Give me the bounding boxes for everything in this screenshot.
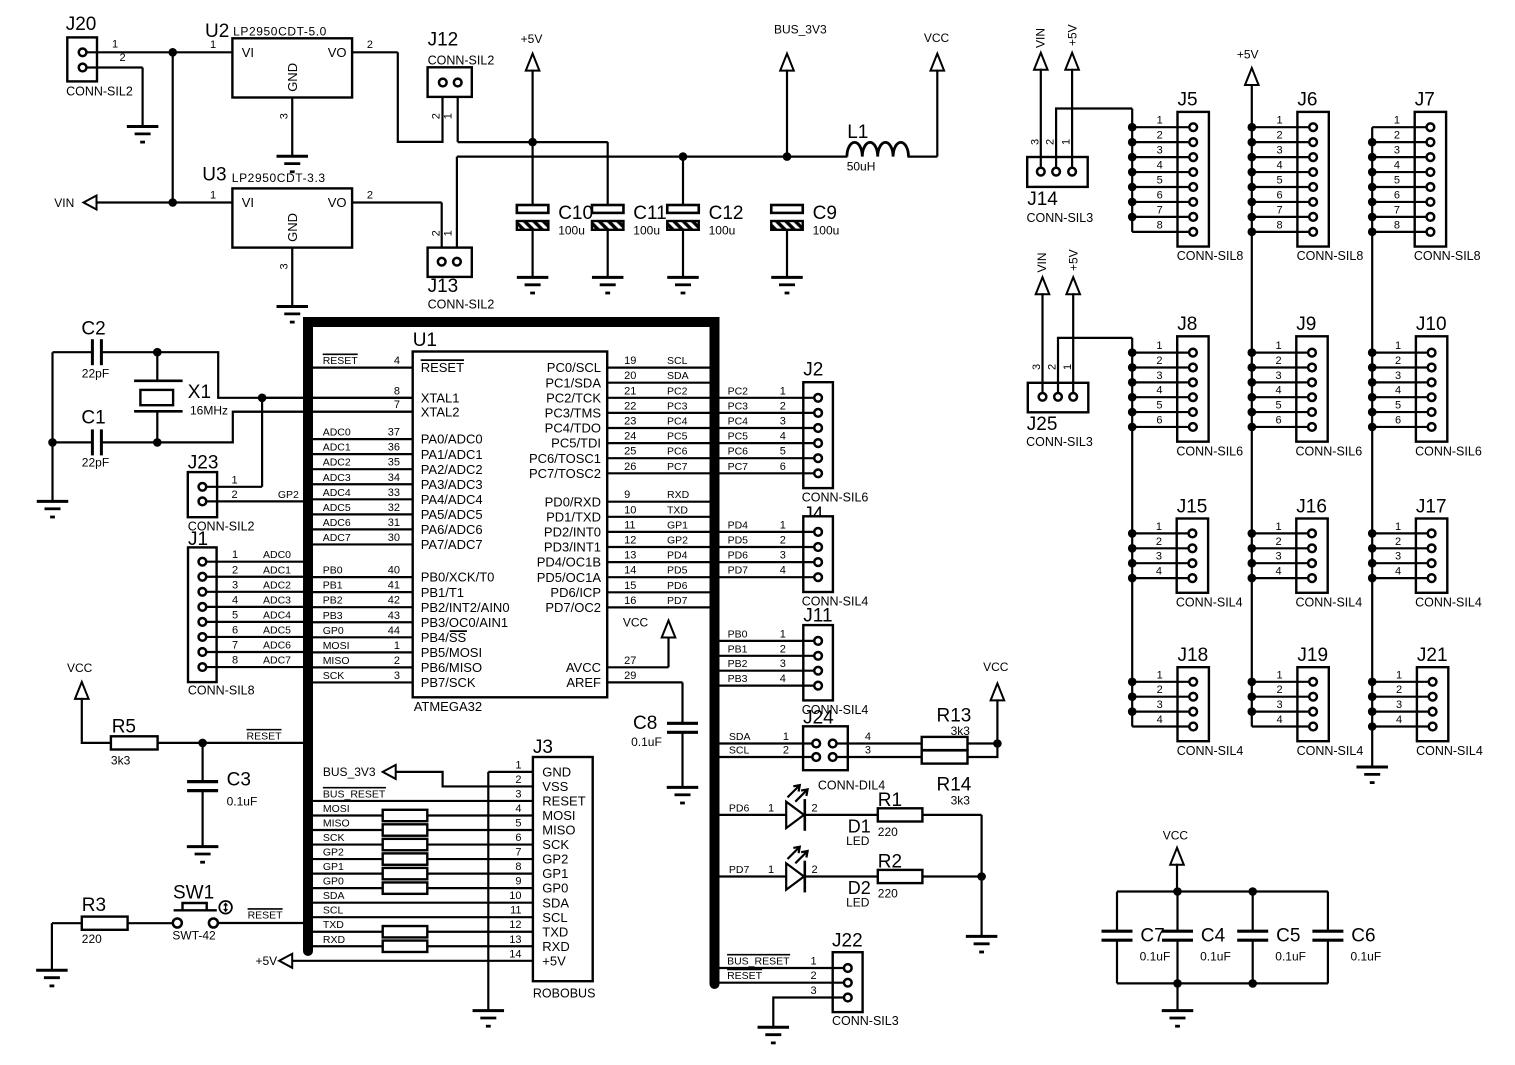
- svg-text:23: 23: [624, 416, 636, 428]
- svg-text:LED: LED: [846, 834, 870, 848]
- svg-text:PB1/T1: PB1/T1: [421, 585, 464, 600]
- svg-text:PD4: PD4: [728, 519, 749, 531]
- svg-text:GP1: GP1: [667, 519, 688, 531]
- svg-text:SCL: SCL: [542, 910, 567, 925]
- svg-text:8: 8: [515, 861, 521, 873]
- svg-text:3: 3: [780, 550, 786, 562]
- svg-text:44: 44: [388, 625, 400, 637]
- svg-text:J20: J20: [66, 14, 97, 35]
- svg-text:6: 6: [1395, 414, 1401, 426]
- svg-text:3: 3: [1156, 551, 1162, 563]
- svg-text:16MHz: 16MHz: [190, 404, 228, 418]
- svg-text:16: 16: [624, 595, 636, 607]
- svg-text:PD6/ICP: PD6/ICP: [550, 585, 601, 600]
- svg-text:6: 6: [232, 624, 238, 636]
- svg-text:1: 1: [210, 39, 216, 51]
- svg-text:10: 10: [624, 504, 636, 516]
- svg-text:12: 12: [624, 535, 636, 547]
- svg-text:36: 36: [388, 442, 400, 454]
- svg-text:C4: C4: [1201, 926, 1226, 947]
- svg-text:SWT-42: SWT-42: [172, 929, 216, 943]
- svg-text:VCC: VCC: [983, 660, 1009, 674]
- svg-text:ADC2: ADC2: [323, 457, 351, 469]
- svg-text:VSS: VSS: [542, 779, 568, 794]
- svg-text:2: 2: [232, 564, 238, 576]
- svg-text:2: 2: [1157, 684, 1163, 696]
- svg-text:3: 3: [865, 745, 871, 757]
- svg-text:3: 3: [1277, 699, 1283, 711]
- svg-text:1: 1: [780, 628, 786, 640]
- svg-text:VCC: VCC: [924, 31, 950, 45]
- svg-text:C1: C1: [81, 408, 105, 429]
- svg-text:3: 3: [811, 985, 817, 997]
- svg-text:41: 41: [388, 580, 400, 592]
- svg-text:PB5/MOSI: PB5/MOSI: [421, 645, 482, 660]
- svg-text:4: 4: [780, 673, 786, 685]
- svg-text:1: 1: [768, 802, 774, 814]
- svg-text:J15: J15: [1177, 496, 1208, 517]
- svg-text:21: 21: [624, 385, 636, 397]
- svg-text:ADC0: ADC0: [263, 549, 291, 561]
- svg-text:+5V: +5V: [542, 953, 566, 968]
- svg-text:C12: C12: [709, 203, 744, 224]
- svg-text:6: 6: [1157, 189, 1163, 201]
- svg-text:12: 12: [509, 919, 521, 931]
- svg-text:RXD: RXD: [542, 939, 569, 954]
- svg-text:J6: J6: [1297, 90, 1317, 111]
- svg-text:1: 1: [112, 39, 118, 51]
- svg-text:C6: C6: [1351, 926, 1375, 947]
- svg-text:ADC0: ADC0: [323, 427, 351, 439]
- svg-text:32: 32: [388, 502, 400, 514]
- svg-text:6: 6: [1275, 414, 1281, 426]
- svg-text:C10: C10: [558, 203, 593, 224]
- svg-text:11: 11: [510, 905, 521, 917]
- svg-text:VCC: VCC: [1163, 828, 1189, 842]
- svg-text:3: 3: [1395, 551, 1401, 563]
- svg-text:ADC3: ADC3: [323, 472, 351, 484]
- svg-text:ADC1: ADC1: [323, 442, 351, 454]
- svg-text:3: 3: [394, 670, 400, 682]
- svg-text:RESET: RESET: [247, 730, 283, 742]
- svg-text:ADC4: ADC4: [263, 609, 291, 621]
- svg-text:2: 2: [811, 802, 817, 814]
- svg-text:6: 6: [1156, 414, 1162, 426]
- svg-text:PA5/ADC5: PA5/ADC5: [421, 507, 483, 522]
- svg-text:SCK: SCK: [323, 670, 345, 682]
- svg-text:1: 1: [1277, 669, 1283, 681]
- svg-text:ADC7: ADC7: [263, 655, 291, 667]
- svg-text:1: 1: [1275, 340, 1281, 352]
- svg-text:10: 10: [509, 890, 521, 902]
- svg-text:3: 3: [1396, 699, 1402, 711]
- svg-text:1: 1: [1396, 669, 1402, 681]
- svg-text:SCL: SCL: [729, 745, 750, 757]
- svg-text:C3: C3: [227, 770, 251, 791]
- svg-text:RESET: RESET: [421, 360, 464, 375]
- svg-text:CONN-SIL6: CONN-SIL6: [1415, 444, 1482, 458]
- svg-text:2: 2: [515, 774, 521, 786]
- svg-text:PA7/ADC7: PA7/ADC7: [421, 537, 483, 552]
- svg-text:+5V: +5V: [256, 954, 278, 968]
- svg-text:CONN-SIL2: CONN-SIL2: [66, 84, 133, 98]
- svg-text:GP2: GP2: [542, 852, 568, 867]
- svg-text:37: 37: [388, 427, 400, 439]
- svg-text:GP0: GP0: [323, 876, 344, 888]
- svg-text:100u: 100u: [633, 224, 660, 238]
- svg-text:J25: J25: [1027, 414, 1058, 435]
- svg-text:7: 7: [1394, 204, 1400, 216]
- svg-text:SCK: SCK: [542, 837, 569, 852]
- svg-text:AREF: AREF: [566, 675, 601, 690]
- svg-text:22: 22: [624, 400, 636, 412]
- svg-text:CONN-SIL3: CONN-SIL3: [832, 1014, 899, 1028]
- svg-text:R2: R2: [878, 852, 902, 873]
- svg-text:3: 3: [1275, 370, 1281, 382]
- svg-text:J19: J19: [1297, 645, 1328, 666]
- svg-text:6: 6: [1277, 189, 1283, 201]
- svg-text:CONN-SIL8: CONN-SIL8: [1297, 249, 1364, 263]
- svg-text:2: 2: [780, 643, 786, 655]
- svg-text:PC0/SCL: PC0/SCL: [547, 360, 601, 375]
- svg-text:1: 1: [1062, 364, 1074, 370]
- svg-text:PD5: PD5: [728, 535, 749, 547]
- svg-text:PC4: PC4: [667, 416, 688, 428]
- svg-text:ADC7: ADC7: [323, 532, 351, 544]
- svg-text:PD6: PD6: [667, 580, 688, 592]
- svg-text:MOSI: MOSI: [542, 808, 575, 823]
- svg-text:VCC: VCC: [623, 616, 649, 630]
- svg-text:8: 8: [1394, 219, 1400, 231]
- svg-text:2: 2: [1156, 355, 1162, 367]
- svg-text:6: 6: [1394, 189, 1400, 201]
- svg-text:43: 43: [388, 610, 400, 622]
- svg-text:19: 19: [624, 355, 636, 367]
- svg-text:CONN-SIL8: CONN-SIL8: [188, 684, 255, 698]
- svg-text:ADC5: ADC5: [263, 624, 291, 636]
- svg-text:1: 1: [515, 759, 521, 771]
- svg-text:9: 9: [624, 489, 630, 501]
- svg-text:4: 4: [1157, 714, 1163, 726]
- svg-text:CONN-SIL6: CONN-SIL6: [1296, 444, 1363, 458]
- svg-text:GND: GND: [285, 63, 300, 92]
- svg-text:PD1/TXD: PD1/TXD: [546, 509, 601, 524]
- svg-text:100u: 100u: [813, 224, 840, 238]
- svg-text:J13: J13: [428, 276, 459, 297]
- svg-text:LP2950CDT-5.0: LP2950CDT-5.0: [233, 24, 327, 38]
- svg-text:CONN-SIL6: CONN-SIL6: [1176, 444, 1243, 458]
- svg-text:PB0: PB0: [728, 628, 748, 640]
- svg-text:22pF: 22pF: [82, 456, 109, 470]
- svg-text:PD7: PD7: [667, 595, 688, 607]
- svg-text:6: 6: [515, 832, 521, 844]
- svg-text:AVCC: AVCC: [566, 660, 601, 675]
- svg-text:VO: VO: [328, 195, 347, 210]
- svg-text:PD2/INT0: PD2/INT0: [544, 525, 601, 540]
- svg-text:CONN-SIL4: CONN-SIL4: [1415, 595, 1482, 609]
- svg-text:5: 5: [232, 609, 238, 621]
- svg-text:RESET: RESET: [542, 794, 585, 809]
- svg-text:1: 1: [1061, 139, 1073, 145]
- svg-text:C2: C2: [81, 319, 105, 340]
- svg-text:PA1/ADC1: PA1/ADC1: [421, 447, 483, 462]
- svg-text:3: 3: [278, 113, 290, 119]
- svg-text:4: 4: [1395, 385, 1401, 397]
- svg-text:PC5: PC5: [728, 431, 749, 443]
- svg-text:CONN-SIL8: CONN-SIL8: [1177, 249, 1244, 263]
- svg-text:SCL: SCL: [667, 355, 688, 367]
- svg-text:5: 5: [1157, 175, 1163, 187]
- svg-text:SCL: SCL: [323, 905, 344, 917]
- svg-text:ADC1: ADC1: [263, 564, 291, 576]
- svg-text:3k3: 3k3: [111, 753, 131, 767]
- svg-text:VIN: VIN: [54, 196, 74, 210]
- svg-text:2: 2: [780, 535, 786, 547]
- svg-text:13: 13: [509, 934, 521, 946]
- svg-text:CONN-SIL3: CONN-SIL3: [1026, 435, 1093, 449]
- svg-text:C11: C11: [633, 203, 666, 224]
- svg-text:42: 42: [388, 595, 400, 607]
- svg-text:PD6: PD6: [729, 802, 750, 814]
- svg-text:1: 1: [780, 385, 786, 397]
- svg-text:PB3/OC0/AIN1: PB3/OC0/AIN1: [421, 615, 508, 630]
- svg-text:PC7: PC7: [728, 461, 749, 473]
- svg-text:3: 3: [1275, 551, 1281, 563]
- svg-text:0.1uF: 0.1uF: [227, 795, 258, 809]
- svg-text:GP2: GP2: [667, 535, 688, 547]
- svg-text:9: 9: [515, 876, 521, 888]
- svg-text:2: 2: [1275, 355, 1281, 367]
- svg-text:PA2/ADC2: PA2/ADC2: [421, 462, 483, 477]
- svg-text:1: 1: [1395, 340, 1401, 352]
- svg-text:4: 4: [1395, 566, 1401, 578]
- svg-text:1: 1: [780, 519, 786, 531]
- svg-text:PB6/MISO: PB6/MISO: [421, 660, 482, 675]
- svg-text:11: 11: [624, 519, 635, 531]
- svg-text:34: 34: [388, 472, 400, 484]
- svg-text:U2: U2: [205, 21, 229, 42]
- svg-text:MISO: MISO: [323, 655, 350, 667]
- svg-text:+5V: +5V: [1237, 48, 1259, 62]
- svg-text:26: 26: [624, 461, 636, 473]
- svg-text:PD4: PD4: [667, 550, 688, 562]
- svg-text:2: 2: [1394, 130, 1400, 142]
- svg-text:R5: R5: [112, 717, 136, 738]
- svg-text:2: 2: [780, 400, 786, 412]
- svg-text:PB2: PB2: [323, 595, 343, 607]
- svg-text:2: 2: [1157, 130, 1163, 142]
- svg-text:J3: J3: [533, 737, 553, 758]
- svg-text:PB4/SS: PB4/SS: [421, 630, 467, 645]
- svg-text:J5: J5: [1178, 90, 1198, 111]
- svg-text:4: 4: [865, 731, 871, 743]
- svg-text:2: 2: [1275, 536, 1281, 548]
- svg-text:VI: VI: [242, 45, 254, 60]
- svg-text:GP2: GP2: [323, 847, 344, 859]
- svg-text:ADC5: ADC5: [323, 502, 351, 514]
- svg-text:22pF: 22pF: [82, 367, 109, 381]
- svg-text:PC5/TDI: PC5/TDI: [551, 436, 601, 451]
- svg-text:1: 1: [1156, 521, 1162, 533]
- svg-text:PD4/OC1B: PD4/OC1B: [537, 555, 601, 570]
- svg-text:3: 3: [1157, 699, 1163, 711]
- svg-text:25: 25: [624, 446, 636, 458]
- svg-text:PC4/TDO: PC4/TDO: [545, 421, 601, 436]
- svg-text:PC7: PC7: [667, 461, 688, 473]
- svg-text:2: 2: [811, 970, 817, 982]
- svg-text:3: 3: [1394, 145, 1400, 157]
- svg-text:50uH: 50uH: [847, 159, 876, 173]
- svg-text:220: 220: [878, 887, 898, 901]
- svg-text:R1: R1: [878, 790, 902, 811]
- svg-text:ADC6: ADC6: [263, 640, 291, 652]
- svg-text:VIN: VIN: [1035, 252, 1049, 272]
- svg-text:J7: J7: [1415, 90, 1435, 111]
- svg-text:4: 4: [394, 355, 400, 367]
- svg-text:2: 2: [1156, 536, 1162, 548]
- svg-text:C7: C7: [1140, 926, 1164, 947]
- svg-text:2: 2: [119, 52, 125, 64]
- svg-text:1: 1: [1157, 669, 1163, 681]
- svg-text:1: 1: [1156, 340, 1162, 352]
- svg-text:3k3: 3k3: [951, 793, 971, 807]
- svg-text:3: 3: [515, 788, 521, 800]
- svg-text:PB0/XCK/T0: PB0/XCK/T0: [421, 570, 495, 585]
- svg-text:4: 4: [1394, 160, 1400, 172]
- svg-text:PB1: PB1: [323, 580, 343, 592]
- svg-text:BUS_RESET: BUS_RESET: [727, 956, 790, 968]
- svg-text:PA3/ADC3: PA3/ADC3: [421, 477, 483, 492]
- svg-text:4: 4: [1157, 160, 1163, 172]
- svg-text:2: 2: [394, 655, 400, 667]
- svg-text:2: 2: [367, 189, 373, 201]
- svg-text:3: 3: [1157, 145, 1163, 157]
- svg-text:PC6/TOSC1: PC6/TOSC1: [529, 451, 601, 466]
- svg-text:1: 1: [1277, 115, 1283, 127]
- svg-text:X1: X1: [188, 382, 211, 403]
- svg-text:PC2: PC2: [667, 385, 688, 397]
- svg-text:4: 4: [1396, 714, 1402, 726]
- svg-text:4: 4: [1275, 566, 1281, 578]
- svg-text:GP2: GP2: [278, 489, 299, 501]
- svg-text:TXD: TXD: [542, 924, 568, 939]
- svg-text:VO: VO: [328, 45, 347, 60]
- svg-text:PB7/SCK: PB7/SCK: [421, 675, 476, 690]
- svg-text:SCK: SCK: [323, 832, 345, 844]
- svg-text:PB3: PB3: [323, 610, 343, 622]
- svg-text:33: 33: [388, 487, 400, 499]
- svg-text:PA4/ADC4: PA4/ADC4: [421, 492, 483, 507]
- svg-text:0.1uF: 0.1uF: [631, 735, 662, 749]
- svg-text:J21: J21: [1417, 645, 1448, 666]
- svg-text:J18: J18: [1178, 645, 1209, 666]
- svg-text:MOSI: MOSI: [323, 640, 350, 652]
- svg-text:40: 40: [388, 565, 400, 577]
- svg-text:PD3/INT1: PD3/INT1: [544, 540, 601, 555]
- svg-text:3: 3: [1031, 364, 1043, 370]
- svg-text:2: 2: [1396, 684, 1402, 696]
- svg-text:1: 1: [783, 731, 789, 743]
- svg-text:2: 2: [1045, 139, 1057, 145]
- svg-text:RESET: RESET: [727, 970, 763, 982]
- svg-text:PC3: PC3: [667, 400, 688, 412]
- svg-text:6: 6: [780, 461, 786, 473]
- svg-text:VIN: VIN: [1034, 28, 1048, 48]
- svg-text:4: 4: [780, 565, 786, 577]
- svg-text:8: 8: [1277, 219, 1283, 231]
- svg-text:VI: VI: [242, 195, 254, 210]
- svg-text:J8: J8: [1177, 314, 1197, 335]
- svg-text:PD5: PD5: [667, 565, 688, 577]
- svg-text:5: 5: [1394, 175, 1400, 187]
- svg-text:7: 7: [394, 399, 400, 411]
- svg-text:CONN-SIL4: CONN-SIL4: [1296, 595, 1363, 609]
- svg-text:GP1: GP1: [323, 861, 344, 873]
- svg-text:SW1: SW1: [173, 883, 214, 904]
- svg-text:3: 3: [780, 416, 786, 428]
- svg-text:U1: U1: [413, 330, 437, 351]
- svg-text:2: 2: [783, 745, 789, 757]
- svg-text:R14: R14: [937, 774, 972, 795]
- svg-text:RESET: RESET: [248, 910, 284, 922]
- svg-text:CONN-SIL4: CONN-SIL4: [1177, 744, 1244, 758]
- svg-text:100u: 100u: [709, 224, 736, 238]
- svg-text:CONN-SIL6: CONN-SIL6: [802, 491, 869, 505]
- svg-text:2: 2: [1277, 130, 1283, 142]
- svg-text:3: 3: [232, 579, 238, 591]
- svg-text:2: 2: [1047, 364, 1059, 370]
- svg-text:CONN-SIL4: CONN-SIL4: [1297, 744, 1364, 758]
- svg-text:4: 4: [1156, 566, 1162, 578]
- svg-text:CONN-SIL2: CONN-SIL2: [428, 54, 495, 68]
- svg-text:J17: J17: [1416, 496, 1447, 517]
- svg-text:1: 1: [811, 956, 817, 968]
- svg-text:MISO: MISO: [542, 823, 575, 838]
- svg-text:TXD: TXD: [323, 919, 344, 931]
- svg-text:VCC: VCC: [67, 661, 93, 675]
- svg-text:3: 3: [278, 263, 290, 269]
- svg-text:PA0/ADC0: PA0/ADC0: [421, 432, 483, 447]
- svg-text:C9: C9: [813, 203, 837, 224]
- svg-text:3: 3: [1156, 370, 1162, 382]
- svg-text:BUS_3V3: BUS_3V3: [774, 23, 827, 37]
- svg-text:2: 2: [1395, 355, 1401, 367]
- svg-text:31: 31: [388, 517, 400, 529]
- svg-text:GND: GND: [285, 213, 300, 242]
- svg-text:1: 1: [768, 864, 774, 876]
- svg-text:4: 4: [232, 594, 238, 606]
- svg-text:2: 2: [367, 39, 373, 51]
- svg-text:1: 1: [1157, 115, 1163, 127]
- svg-text:PD7/OC2: PD7/OC2: [545, 600, 601, 615]
- svg-text:J14: J14: [1027, 189, 1058, 210]
- svg-text:20: 20: [624, 370, 636, 382]
- svg-text:ADC4: ADC4: [323, 487, 351, 499]
- svg-text:1: 1: [1394, 115, 1400, 127]
- svg-text:+5V: +5V: [1067, 249, 1081, 271]
- svg-text:7: 7: [232, 640, 238, 652]
- svg-text:PC5: PC5: [667, 431, 688, 443]
- svg-text:J16: J16: [1296, 496, 1327, 517]
- svg-text:15: 15: [624, 580, 636, 592]
- svg-text:0.1uF: 0.1uF: [1351, 949, 1382, 963]
- svg-text:5: 5: [1277, 175, 1283, 187]
- svg-text:13: 13: [624, 550, 636, 562]
- svg-text:PD7: PD7: [729, 864, 750, 876]
- svg-text:0.1uF: 0.1uF: [1275, 949, 1306, 963]
- svg-text:1: 1: [394, 640, 400, 652]
- svg-text:4: 4: [1277, 160, 1283, 172]
